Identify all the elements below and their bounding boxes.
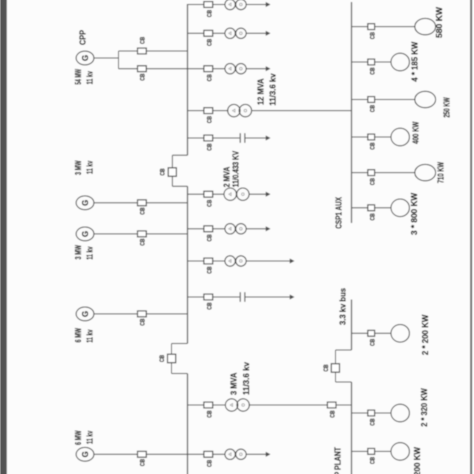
svg-text:CB: CB <box>206 302 213 309</box>
wire feeder fG mid <box>213 228 225 230</box>
wire G1 branch B <box>119 68 188 70</box>
wire feeder fI lower <box>246 296 291 298</box>
wire feeder fK upper <box>188 453 204 455</box>
svg-text:CB: CB <box>206 410 213 417</box>
wire branch b200b lower <box>375 450 392 452</box>
wire tie2 riser left <box>172 373 188 375</box>
wire G1 stem <box>94 57 119 59</box>
wire feeder fA lower <box>246 4 266 6</box>
wire feeder fG lower <box>246 228 266 230</box>
svg-text:54 MW: 54 MW <box>73 68 83 84</box>
label 12 MVA <box>255 78 265 105</box>
wire feeder fK mid <box>213 453 225 455</box>
wire branch b250 upper <box>352 99 368 101</box>
svg-text:CB: CB <box>160 168 167 175</box>
bus 3.3kv segment right <box>351 300 353 351</box>
wire feeder fI mid <box>213 296 240 298</box>
label 11/3.6 kv (12MVA) <box>267 73 277 105</box>
svg-text:CB: CB <box>323 364 330 371</box>
breaker CB bus tie1 <box>168 168 176 177</box>
label CB (G4) <box>140 318 147 325</box>
label CB (feeder fK) <box>206 460 213 467</box>
wire G1 branch A <box>119 50 188 52</box>
wire branch b400 lower <box>375 136 392 138</box>
motor load b800 <box>391 199 409 217</box>
label CB (branch b250) <box>369 105 376 112</box>
svg-text:CB: CB <box>206 39 213 46</box>
label CB (branch b185) <box>369 67 376 74</box>
arrow load fB <box>266 31 271 36</box>
svg-text:G: G <box>81 55 90 61</box>
wire G4 to bus <box>94 313 188 315</box>
svg-text:11 kv: 11 kv <box>85 431 95 444</box>
generator G2 (3 MW) <box>76 196 94 210</box>
svg-text:6 MW: 6 MW <box>73 430 83 445</box>
svg-text:250 KW: 250 KW <box>442 97 452 118</box>
label CB (branch b320) <box>369 418 376 425</box>
wire branch b185 upper <box>352 61 368 63</box>
generator G5 (6 MW) <box>76 447 94 461</box>
label CB (branch b710) <box>369 178 376 185</box>
arrow load fH <box>290 259 295 264</box>
label CB (branch b400) <box>369 142 376 149</box>
bus 11kV segment 3 <box>187 4 189 155</box>
breaker CB feeder fC <box>204 66 213 72</box>
label CB (branch b800) <box>369 213 376 220</box>
wire feeder fC upper <box>188 68 204 70</box>
generator G4 (6 MW) <box>76 307 94 321</box>
svg-text:3 * 800 KW: 3 * 800 KW <box>409 192 419 235</box>
transformer fB <box>225 28 246 38</box>
transformer fH <box>225 256 246 266</box>
wire branch b185 lower <box>375 61 392 63</box>
breaker CB feeder fA <box>204 2 213 8</box>
arrow load fF <box>266 192 271 197</box>
wire feeder fC mid <box>213 68 225 70</box>
svg-text:CB: CB <box>206 199 213 206</box>
label 3 MVA <box>228 373 238 395</box>
svg-text:11 kv: 11 kv <box>85 71 95 84</box>
label 11 kv (G5) <box>85 431 95 444</box>
wire feeder fK lower <box>246 453 266 455</box>
transformer fG <box>225 224 246 234</box>
label CSP1 AUX <box>334 197 344 229</box>
breaker CB G2 <box>138 200 147 206</box>
wire tie1 link <box>171 155 173 186</box>
transformer fA <box>225 0 246 10</box>
capacitor fI plate2 <box>244 292 246 302</box>
wire G5 to bus <box>94 453 188 455</box>
wire branch b200a lower <box>375 332 392 334</box>
svg-text:CB: CB <box>140 207 147 214</box>
svg-text:CPP: CPP <box>78 30 88 45</box>
label 2 * 200 KW (b200a) <box>420 314 430 355</box>
label CSP PLANT <box>333 446 343 474</box>
label 2 * 320 KW (b320) <box>419 387 429 426</box>
breaker CB feeder fG <box>204 226 213 232</box>
wire feeder fF lower <box>249 193 266 195</box>
wire branch b800 lower <box>375 207 392 209</box>
arrow load fI <box>290 295 295 300</box>
wire tie2 riser right <box>172 343 188 345</box>
wire 12MVA mid <box>213 110 228 112</box>
label CB (12MVA) <box>206 116 213 123</box>
wire bus3 tie link <box>335 350 337 382</box>
label 710 KW (b710) <box>436 161 446 183</box>
svg-text:6 MW: 6 MW <box>73 327 83 342</box>
svg-text:2 * 200 KW: 2 * 200 KW <box>412 446 422 474</box>
svg-text:CB: CB <box>206 116 213 123</box>
svg-text:CB: CB <box>206 143 213 150</box>
wire feeder fI upper <box>188 296 204 298</box>
label 4 * 185 KW (b185) <box>410 41 420 82</box>
label 3 MW (G3) <box>73 244 83 259</box>
bus 11kV segment 1 <box>187 374 189 474</box>
breaker CB branch b320 <box>368 410 375 416</box>
breaker CB branch b580 <box>368 24 375 30</box>
wire branch b250 lower <box>375 99 415 101</box>
label CB (feeder fE) <box>206 143 213 150</box>
label CB (G3) <box>140 238 147 245</box>
wire feeder fB lower <box>246 32 266 34</box>
bus 11kV segment 2 <box>187 186 189 343</box>
wire branch b580 upper <box>352 26 368 28</box>
wire branch b710 upper <box>352 172 368 174</box>
label 3 * 800 KW (b800) <box>409 192 419 235</box>
svg-text:CB: CB <box>369 105 376 112</box>
svg-text:4 * 185 KW: 4 * 185 KW <box>410 41 420 82</box>
label 400 KW (b400) <box>411 121 421 144</box>
svg-text:CB: CB <box>206 460 213 467</box>
bus 3.3kv segment left <box>351 382 353 474</box>
svg-text:CB: CB <box>369 339 376 346</box>
breaker CB branch b400 <box>368 134 375 140</box>
label 6 MW (G4) <box>73 327 83 342</box>
wire G1 header <box>118 51 120 69</box>
label CB (G1-B) <box>140 73 147 80</box>
svg-text:CB: CB <box>369 418 376 425</box>
svg-text:2 * 200 KW: 2 * 200 KW <box>420 314 430 355</box>
wire feeder fH lower <box>246 260 290 262</box>
wire G2 to bus <box>94 202 188 204</box>
svg-text:3 MVA: 3 MVA <box>228 373 238 395</box>
breaker CB branch b185 <box>368 59 375 65</box>
arrow load fA <box>266 2 271 7</box>
svg-text:CB: CB <box>369 178 376 185</box>
transformer 3MVA <box>225 399 249 411</box>
breaker CB 3MVA upper <box>204 402 213 408</box>
svg-text:CB: CB <box>140 459 147 466</box>
breaker CB G3 <box>138 231 147 237</box>
breaker CB G1-A <box>138 48 147 54</box>
wire branch b580 lower <box>375 26 415 28</box>
wire branch b200b upper <box>352 450 368 452</box>
label 11 kv (G3) <box>85 246 95 259</box>
label CB (feeder fA) <box>206 10 213 17</box>
svg-text:2 * 320 KW: 2 * 320 KW <box>419 387 429 426</box>
wire 3MVA upper <box>188 404 204 406</box>
motor load b200b <box>391 443 409 461</box>
svg-text:11 kv: 11 kv <box>85 246 95 259</box>
breaker CB G5 <box>138 451 147 457</box>
label 11 kv (G2) <box>85 161 95 174</box>
wire bus3 tie riser left <box>336 381 352 383</box>
svg-text:11 kv: 11 kv <box>85 329 95 342</box>
bus CSP1 AUX <box>351 2 353 223</box>
breaker CB feeder fH <box>204 258 213 264</box>
arrow load fK <box>266 452 271 457</box>
motor load b185 <box>391 53 409 71</box>
svg-text:CB: CB <box>206 266 213 273</box>
motor load b580 <box>415 18 436 34</box>
label 11/3.6 kv (3MVA) <box>241 362 251 395</box>
wire 3MVA to bus3 <box>336 404 352 406</box>
svg-text:3 MW: 3 MW <box>73 160 83 175</box>
wire feeder fB upper <box>188 32 204 34</box>
label CB (bus3 tie) <box>323 364 330 371</box>
svg-text:G: G <box>81 231 90 237</box>
breaker CB feeder fI <box>204 294 213 300</box>
label 580 KW (b580) <box>434 6 444 38</box>
svg-text:CB: CB <box>206 10 213 17</box>
svg-text:CB: CB <box>140 37 147 44</box>
label 3 MW (G2) <box>73 160 83 175</box>
wire tie1 riser left <box>172 185 187 187</box>
arrow load fC <box>266 66 271 71</box>
svg-text:CB: CB <box>369 32 376 39</box>
svg-text:G: G <box>81 311 90 317</box>
label 11/0.433 KV <box>232 150 241 187</box>
label 2 * 200 KW (b200b) <box>412 446 422 474</box>
svg-text:12 MVA: 12 MVA <box>255 78 265 105</box>
wire branch b320 upper <box>352 412 368 414</box>
svg-text:CSP PLANT: CSP PLANT <box>333 446 343 474</box>
svg-text:G: G <box>81 200 90 206</box>
wire feeder fA upper <box>188 4 204 6</box>
wire 12MVA to bus2 <box>252 110 352 112</box>
motor load b200a <box>391 325 409 343</box>
breaker CB 3MVA lower <box>327 402 336 408</box>
wire feeder fF mid <box>213 193 225 195</box>
label 11 kv (G1) <box>85 71 95 84</box>
svg-text:11 kv: 11 kv <box>85 161 95 174</box>
wire feeder fB mid <box>213 32 225 34</box>
label CB (branch b580) <box>369 32 376 39</box>
label CB (feeder fI) <box>206 302 213 309</box>
svg-text:11/3.6 kv: 11/3.6 kv <box>267 73 277 105</box>
wire feeder fE upper <box>188 137 204 139</box>
breaker CB feeder fE <box>204 135 213 141</box>
svg-text:CB: CB <box>206 234 213 241</box>
wire feeder fH upper <box>188 260 204 262</box>
label CB (branch b200b) <box>369 457 376 464</box>
svg-text:CB: CB <box>140 238 147 245</box>
wire branch b710 lower <box>375 172 415 174</box>
transformer 12MVA <box>228 104 252 116</box>
label CB (3MVA upper) <box>206 410 213 417</box>
transformer 2MVA <box>224 188 249 200</box>
transformer fK <box>225 449 246 459</box>
wire branch b320 lower <box>375 412 392 414</box>
wire bus3 tie riser right <box>336 349 352 351</box>
label CB (3MVA lower) <box>329 410 336 417</box>
svg-text:CB: CB <box>369 213 376 220</box>
svg-text:710 KW: 710 KW <box>436 161 446 183</box>
arrow load fG <box>266 226 271 231</box>
wire feeder fA mid <box>213 4 225 6</box>
svg-text:3.3 kv bus: 3.3 kv bus <box>337 288 347 325</box>
label CB (feeder fF) <box>206 199 213 206</box>
label 2 MVA <box>222 167 232 188</box>
capacitor fI plate1 <box>239 292 241 302</box>
breaker CB bus3 tie <box>331 364 339 373</box>
svg-text:CB: CB <box>140 318 147 325</box>
label 6 MW (G5) <box>73 430 83 445</box>
breaker CB G4 <box>138 311 147 317</box>
breaker CB 12MVA <box>204 108 213 114</box>
svg-text:580 KW: 580 KW <box>434 6 444 38</box>
wire feeder fE mid <box>213 137 240 139</box>
svg-text:CB: CB <box>159 355 166 362</box>
label CB (feeder fH) <box>206 266 213 273</box>
breaker CB branch b250 <box>368 97 375 103</box>
breaker CB branch b200b <box>368 448 375 454</box>
wire feeder fF upper <box>188 193 204 195</box>
svg-text:CB: CB <box>140 73 147 80</box>
wire 12MVA upper <box>188 110 204 112</box>
breaker CB branch b710 <box>368 170 375 176</box>
generator G3 (3 MW) <box>76 227 94 241</box>
label CB (tie1) <box>160 168 167 175</box>
label 11 kv (G4) <box>85 329 95 342</box>
motor load b320 <box>391 404 409 422</box>
breaker CB bus tie2 <box>168 354 176 363</box>
bottom border rule <box>470 0 472 474</box>
svg-text:CB: CB <box>369 142 376 149</box>
label 54 MW (G1) <box>73 68 83 84</box>
wire 3MVA lower <box>249 404 327 406</box>
breaker CB feeder fF <box>204 191 213 197</box>
generator G1 (CPP) <box>76 51 94 65</box>
svg-text:CSP1 AUX: CSP1 AUX <box>334 197 344 229</box>
label CPP <box>78 30 88 45</box>
wire feeder fG upper <box>188 228 204 230</box>
label CB (G5) <box>140 459 147 466</box>
wire branch b200a upper <box>352 332 368 334</box>
wire 3MVA mid <box>213 404 226 406</box>
top border bar <box>0 0 7 474</box>
breaker CB G1-B <box>138 66 147 72</box>
wire tie1 riser right <box>172 154 187 156</box>
wire branch b400 upper <box>352 136 368 138</box>
wire tie2 link <box>171 344 173 374</box>
label CB (feeder fB) <box>206 39 213 46</box>
wire G3 to bus <box>94 233 188 235</box>
svg-text:CB: CB <box>329 410 336 417</box>
svg-text:11/3.6 kv: 11/3.6 kv <box>241 362 251 395</box>
svg-text:CB: CB <box>369 67 376 74</box>
capacitor fE plate1 <box>239 133 241 143</box>
svg-text:3 MW: 3 MW <box>73 244 83 259</box>
breaker CB branch b200a <box>368 330 375 336</box>
motor load b710 <box>415 164 436 180</box>
label CB (G1-A) <box>140 37 147 44</box>
breaker CB feeder fK <box>204 451 213 457</box>
svg-text:11/0.433 KV: 11/0.433 KV <box>232 150 241 187</box>
label CB (tie2) <box>159 355 166 362</box>
label 250 KW (b250) <box>442 97 452 118</box>
transformer fC <box>225 64 246 74</box>
svg-text:G: G <box>81 451 90 457</box>
label CB (feeder fC) <box>206 74 213 81</box>
svg-text:400 KW: 400 KW <box>411 121 421 144</box>
wire branch b800 upper <box>352 207 368 209</box>
svg-text:2 MVA: 2 MVA <box>222 167 232 188</box>
breaker CB branch b800 <box>368 205 375 211</box>
wire feeder fH mid <box>213 260 225 262</box>
motor load b250 <box>415 91 436 107</box>
svg-text:CB: CB <box>369 457 376 464</box>
wire feeder fC lower <box>246 68 266 70</box>
label 3.3 kv bus <box>337 288 347 325</box>
motor load b400 <box>391 128 409 146</box>
label CB (G2) <box>140 207 147 214</box>
arrow load fE <box>266 136 271 141</box>
svg-text:CB: CB <box>206 74 213 81</box>
label CB (branch b200a) <box>369 339 376 346</box>
breaker CB feeder fB <box>204 30 213 36</box>
capacitor fE plate2 <box>244 133 246 143</box>
wire feeder fE lower <box>246 137 267 139</box>
label CB (feeder fG) <box>206 234 213 241</box>
